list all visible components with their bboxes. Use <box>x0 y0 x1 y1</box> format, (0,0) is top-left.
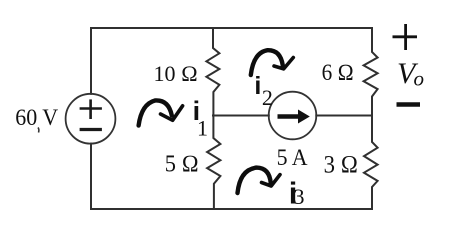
svg-text:3: 3 <box>294 184 305 209</box>
svg-text:60 V: 60 V <box>15 105 58 130</box>
svg-text:o: o <box>414 67 425 91</box>
svg-text:3 Ω: 3 Ω <box>324 151 359 178</box>
svg-text:5 Ω: 5 Ω <box>165 151 199 177</box>
svg-text:6 Ω: 6 Ω <box>322 60 354 85</box>
svg-text:10 Ω: 10 Ω <box>154 61 198 86</box>
svg-text:1: 1 <box>197 116 208 141</box>
svg-text:5 A: 5 A <box>277 145 308 170</box>
svg-text:i: i <box>254 72 261 100</box>
svg-text:2: 2 <box>262 85 273 110</box>
